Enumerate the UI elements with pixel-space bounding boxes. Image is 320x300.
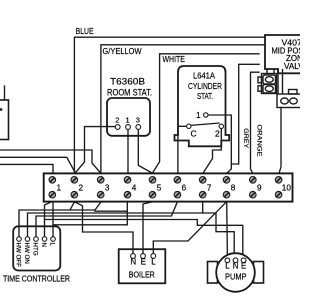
svg-text:9: 9 (257, 184, 262, 193)
svg-text:8: 8 (231, 184, 236, 193)
wire boiler L diagonal to terminal 8 (153, 202, 226, 254)
svg-text:C: C (191, 128, 197, 138)
wire pump L to terminal 8 (226, 202, 229, 258)
terminal 9 (screws + number) (250, 177, 257, 184)
svg-text:E: E (241, 261, 246, 270)
wire stub above mains box (4, 86, 6, 100)
wire g/yellow (101, 45, 265, 174)
wire blue vertical+horizontal (74, 37, 265, 173)
svg-text:6: 6 (182, 184, 187, 193)
wire under-strip joiner (95, 210, 127, 212)
wire time controller N to terminal 1 and pump E (45, 202, 52, 237)
wire room stat 1 to terminal 4 (127, 131, 129, 174)
svg-text:BOILER: BOILER (129, 269, 155, 279)
svg-text:HTG: HTG (32, 243, 39, 256)
svg-text:CYLINDER: CYLINDER (188, 81, 222, 91)
svg-text:2: 2 (215, 128, 220, 138)
svg-text:L: L (225, 261, 230, 270)
terminal strip (44, 173, 293, 201)
wire valve connector to terminal 10 (279, 108, 281, 174)
wire grey (231, 64, 259, 164)
mains box (cut off at left edge) (0, 100, 9, 140)
svg-text:7: 7 (207, 184, 212, 193)
svg-text:2: 2 (79, 184, 84, 193)
svg-text:STAT.: STAT. (197, 91, 213, 101)
svg-text:G/YELLOW: G/YELLOW (103, 47, 142, 56)
wire mains line 1 to terminal 3 (0, 150, 101, 173)
wire room stat 3 to terminal 5 (138, 131, 152, 173)
svg-text:1: 1 (57, 184, 62, 193)
terminal 5 (screws + number) (149, 177, 156, 184)
wire time controller HW OFF to terminal 3 (branch to terminal 2) (19, 202, 101, 237)
wire cylinder stat 1 to terminal 8 (206, 115, 232, 173)
svg-text:PUMP: PUMP (225, 271, 247, 281)
svg-text:WHITE: WHITE (163, 55, 185, 64)
svg-text:1: 1 (126, 116, 130, 125)
terminal 8 (screws + number) (223, 177, 230, 184)
svg-text:E: E (141, 258, 146, 267)
room stat T6360B (107, 98, 150, 136)
wire mains line 3 to terminal 1 (0, 164, 53, 173)
svg-text:2: 2 (115, 116, 119, 125)
wire room stat 2 to terminal 2 (75, 127, 115, 173)
svg-text:BLUE: BLUE (76, 27, 94, 36)
switch lever (191, 123, 220, 125)
terminal screws and numbers (49, 177, 291, 199)
terminal 10 (screws + number) (275, 177, 282, 184)
svg-text:N: N (40, 243, 47, 247)
wire boiler E to terminal 5 (143, 202, 153, 254)
boiler (119, 249, 166, 283)
terminal 3 (screws + number) (97, 177, 104, 184)
wire time controller L to terminal 1 (branch to terminal 4) (52, 202, 54, 237)
wire time controller HW ON under strip to pump N (28, 213, 235, 258)
svg-text:5: 5 (157, 184, 162, 193)
svg-text:ORANGE: ORANGE (256, 125, 263, 157)
wire pump N riser tail (202, 202, 204, 213)
svg-text:3: 3 (136, 116, 140, 125)
cylinder stat L641A (175, 66, 230, 146)
terminal 6 (screws + number) (174, 177, 181, 184)
svg-text:N: N (233, 261, 239, 270)
svg-text:10: 10 (282, 184, 292, 193)
svg-text:VALVE: VALVE (284, 62, 300, 71)
wire boiler N (75, 202, 134, 254)
time controller (13, 226, 60, 270)
pump (208, 262, 264, 284)
svg-text:L: L (49, 243, 56, 247)
svg-text:L: L (151, 258, 156, 267)
terminal 7 (screws + number) (199, 177, 206, 184)
terminal 2 (screws + number) (71, 177, 78, 184)
svg-text:N: N (130, 258, 136, 267)
svg-text:L641A: L641A (193, 71, 215, 81)
wire white (153, 54, 260, 173)
svg-text:HW ON: HW ON (23, 243, 30, 264)
wire orange (251, 72, 260, 173)
svg-text:HW OFF: HW OFF (15, 243, 22, 268)
svg-text:GREY: GREY (242, 128, 249, 149)
svg-text:1: 1 (196, 110, 201, 120)
wire cylinder stat C to terminal 6 (178, 126, 187, 173)
svg-text:TIME CONTROLLER: TIME CONTROLLER (3, 274, 70, 283)
wire time controller HTG to terminal 6 (36, 202, 177, 237)
terminal 1 (screws + number) (49, 177, 56, 184)
svg-text:T6360B: T6360B (110, 77, 145, 87)
svg-text:4: 4 (132, 184, 137, 193)
svg-text:ROOM STAT.: ROOM STAT. (107, 88, 152, 98)
terminal 4 (screws + number) (124, 177, 131, 184)
svg-text:3: 3 (105, 184, 110, 193)
valve connector B with stem (277, 69, 301, 108)
valve connector A (258, 69, 277, 94)
mid position valve V4073A (265, 35, 312, 73)
wire mains line 2 to terminal 2 (0, 157, 75, 173)
wire cylinder stat 2 to terminal 7 (203, 129, 221, 174)
